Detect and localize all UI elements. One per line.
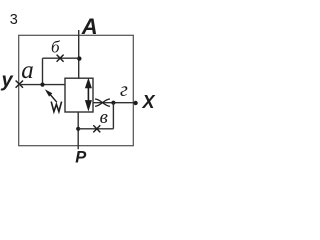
svg-text:а: а — [21, 57, 34, 84]
node junction P-v — [76, 127, 80, 131]
wire g horizontal — [93, 102, 136, 104]
closed-port cross on y port at border — [16, 81, 23, 88]
svg-text:б: б — [51, 38, 60, 57]
wire v horizontal — [78, 128, 113, 130]
svg-text:X: X — [142, 92, 156, 112]
adjustment arrow head — [45, 89, 53, 96]
svg-text:3: 3 — [10, 12, 18, 28]
spring W — [51, 102, 61, 112]
valve arrow head up — [85, 78, 92, 88]
wire P vertical — [77, 112, 79, 149]
adjustment arrow shaft — [50, 95, 57, 103]
closed-port cross on g wire — [95, 99, 110, 106]
enclosure rectangle — [19, 35, 134, 145]
svg-text:P: P — [75, 149, 87, 164]
valve double arrow shaft — [87, 86, 89, 101]
svg-text:y: y — [1, 70, 14, 92]
node terminal X — [133, 101, 137, 105]
node junction A-b — [77, 56, 81, 60]
wire a horizontal — [19, 84, 65, 86]
closed-port cross on b wire — [57, 55, 64, 62]
wire v vertical riser — [112, 103, 114, 129]
svg-text:A: A — [81, 14, 98, 39]
valve arrow head down — [85, 100, 92, 111]
valve body box — [65, 78, 93, 112]
wire b horizontal — [43, 57, 80, 59]
wire b vertical drop — [42, 58, 44, 84]
wire A vertical — [78, 30, 80, 78]
closed-port cross on v wire — [93, 125, 100, 132]
svg-text:г: г — [120, 79, 128, 101]
node junction a-b — [40, 83, 44, 87]
svg-text:в: в — [100, 107, 108, 128]
node junction g-v — [111, 101, 115, 105]
